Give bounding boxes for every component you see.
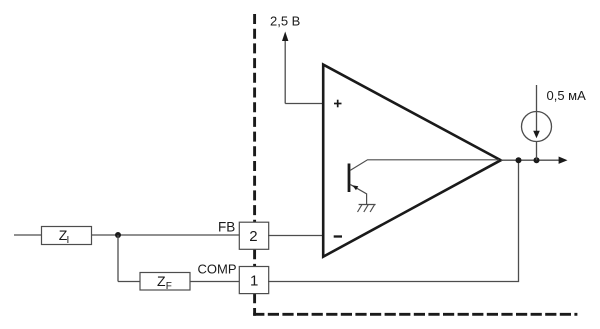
svg-text:FB: FB [218,219,235,234]
supply 2.5V arrow wire [282,32,323,104]
resistor ZI [42,227,92,247]
op-amp U1 [323,65,501,257]
node junction A [115,232,121,238]
current source I1 [522,85,552,160]
wire junction to ZF [118,281,140,283]
svg-text:I: I [67,235,70,246]
pin 1 COMP [239,267,268,294]
wire ZI to pin2 [92,234,240,236]
ground [358,205,376,213]
dashed IC boundary [253,14,577,316]
svg-text:1: 1 [250,272,258,289]
wire pin2 to inverting input [268,235,322,237]
plus input mark [334,100,342,108]
svg-text:Z: Z [157,273,166,289]
minus input mark [334,235,342,237]
transistor Q1 [349,160,499,205]
svg-text:0,5 мА: 0,5 мА [547,88,587,103]
svg-text:2,5 В: 2,5 В [270,13,300,28]
node output 2 [534,157,540,163]
output wire with arrow [501,157,568,164]
wire junction down [117,235,119,282]
wire pin1 feedback to output node [268,160,519,281]
wire input left [14,234,41,236]
svg-text:COMP: COMP [198,261,237,276]
svg-text:2: 2 [249,228,257,245]
resistor ZF [140,273,190,292]
node output 1 [516,157,522,163]
svg-text:F: F [166,281,172,292]
pin 2 FB [239,222,268,249]
wire ZF to pin1 [190,281,240,283]
